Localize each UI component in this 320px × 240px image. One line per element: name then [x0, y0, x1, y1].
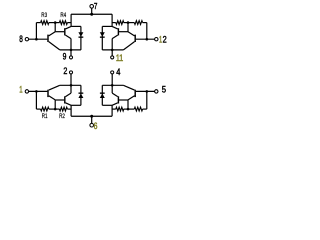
diode D1 cathode bar [79, 36, 84, 38]
diode D2 triangle [100, 32, 105, 37]
wire [119, 31, 128, 33]
resistor R4' [116, 21, 124, 25]
diode D1 triangle [78, 32, 83, 37]
diode D2 cathode bar [100, 36, 105, 38]
resistor R2' [116, 107, 124, 111]
transistor Q5 emitter [49, 85, 60, 90]
node B junction [127, 21, 130, 24]
input pin 12 terminal [155, 38, 158, 41]
wire [127, 100, 129, 109]
svg-text:1: 1 [19, 84, 22, 94]
diode D4 wire [101, 85, 103, 105]
transistor Q7 emitter [123, 85, 134, 90]
wire [49, 108, 60, 110]
wire [67, 22, 71, 24]
diode D4 cathode bar [100, 92, 105, 94]
transistor Q7 collector [128, 96, 135, 100]
pin 11 terminal [111, 56, 114, 59]
node GND junction (pin 6) [90, 115, 93, 118]
wire [136, 90, 155, 92]
wire [102, 104, 112, 106]
wire [55, 99, 64, 101]
pin 9 terminal [69, 56, 72, 59]
node VCC junction (pin 7) [90, 13, 93, 16]
resistor R1' [134, 107, 142, 111]
svg-text:R1: R1 [42, 113, 48, 120]
resistor R4 [59, 21, 67, 25]
svg-text:4: 4 [116, 67, 120, 77]
wire [70, 85, 72, 93]
node B junction [127, 108, 130, 111]
node B junction [54, 108, 57, 111]
input pin 5 terminal [155, 90, 158, 93]
svg-text:7: 7 [94, 2, 98, 11]
transistor Q8 emitter [112, 93, 118, 97]
svg-text:8: 8 [19, 34, 23, 44]
wire [54, 100, 56, 109]
node A junction [146, 38, 149, 41]
node A junction [146, 90, 149, 93]
svg-text:R3: R3 [41, 12, 47, 19]
wire [70, 39, 72, 50]
node B junction [54, 21, 57, 24]
wire [36, 22, 40, 24]
svg-text:6: 6 [94, 121, 98, 131]
transistor Q1 emitter [49, 42, 60, 50]
pin 6 terminal [90, 123, 94, 127]
supply rail wire [91, 13, 112, 15]
transistor Q4 base bar [117, 28, 119, 35]
transistor Q8 collector [112, 103, 118, 106]
wire [49, 22, 60, 24]
transistor Q5 collector [49, 96, 56, 100]
node C junction [111, 84, 114, 87]
wire [111, 85, 113, 93]
wire [55, 31, 64, 33]
pin 4 wire [111, 74, 113, 85]
transistor Q3 collector [128, 32, 135, 36]
svg-text:2: 2 [63, 66, 67, 76]
node C junction [70, 49, 73, 52]
transistor Q1 collector [49, 32, 56, 36]
wire [124, 108, 135, 110]
resistor R2 [59, 107, 67, 111]
wire [60, 49, 81, 51]
transistor Q2 collector [66, 26, 72, 29]
wire [35, 23, 37, 40]
pin 11 wire [111, 50, 113, 56]
input pin 8 terminal [25, 38, 28, 41]
transistor Q3 emitter [123, 42, 134, 50]
transistor Q3 base bar [134, 35, 136, 42]
diode D4 triangle [100, 94, 105, 99]
node C junction [70, 84, 73, 87]
svg-text:R4: R4 [60, 12, 66, 19]
transistor Q2 emitter [66, 35, 72, 39]
svg-text:9: 9 [63, 52, 67, 62]
wire [60, 84, 81, 86]
pin 9 wire [70, 50, 72, 56]
svg-text:2: 2 [163, 34, 167, 44]
wire [67, 108, 71, 110]
wire [71, 25, 81, 27]
wire [112, 22, 116, 24]
pin 2 terminal [69, 71, 72, 74]
transistor Q8 base bar [117, 96, 119, 103]
diode D1 wire [80, 26, 82, 50]
wire [143, 22, 147, 24]
transistor Q6 base bar [64, 96, 66, 103]
pin 7 wire [91, 8, 93, 14]
wire [102, 84, 123, 86]
diode D3 triangle [78, 94, 83, 99]
wire [111, 14, 113, 26]
supply rail wire [71, 13, 92, 15]
supply rail wire [91, 115, 112, 117]
pin 2 wire [70, 74, 72, 85]
resistor R3 [41, 21, 49, 25]
node A junction [35, 38, 38, 41]
input pin 1 terminal [25, 90, 28, 93]
supply rail wire [71, 115, 92, 117]
wire [127, 23, 129, 32]
pin 7 terminal [90, 5, 94, 9]
diode D3 cathode bar [79, 92, 84, 94]
svg-text:R2: R2 [59, 113, 65, 120]
resistor R1 [41, 107, 49, 111]
diode D3 wire [80, 85, 82, 105]
wire [146, 23, 148, 40]
wire [71, 104, 81, 106]
transistor Q2 base bar [64, 28, 66, 35]
wire [29, 38, 48, 40]
transistor Q4 collector [112, 26, 118, 29]
wire [124, 22, 135, 24]
transistor Q4 emitter [112, 35, 118, 39]
resistor R3' [134, 21, 142, 25]
transistor Q5 base bar [47, 90, 49, 97]
wire [111, 105, 113, 116]
wire [102, 49, 123, 51]
wire [143, 108, 147, 110]
wire [119, 99, 128, 101]
wire [111, 39, 113, 50]
wire [136, 38, 155, 40]
wire [36, 108, 40, 110]
node C junction [111, 49, 114, 52]
transistor Q7 base bar [134, 90, 136, 97]
wire [112, 108, 116, 110]
svg-text:5: 5 [162, 84, 166, 94]
node A junction [35, 90, 38, 93]
pin 6 wire [91, 116, 93, 123]
wire [70, 14, 72, 26]
svg-text:11: 11 [116, 53, 123, 63]
transistor Q6 emitter [66, 93, 72, 97]
diode D2 wire [101, 26, 103, 50]
wire [146, 91, 148, 109]
wire [70, 105, 72, 116]
pin 4 terminal [111, 71, 114, 74]
wire [102, 25, 112, 27]
wire [35, 91, 37, 109]
wire [29, 90, 48, 92]
transistor Q1 base bar [47, 35, 49, 42]
wire [54, 23, 56, 32]
transistor Q6 collector [66, 103, 72, 106]
